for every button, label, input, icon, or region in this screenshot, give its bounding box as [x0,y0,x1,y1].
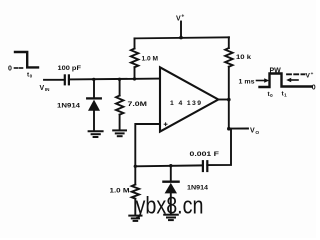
node 0 level label [312,84,316,91]
diode D2 1N914 [170,166,172,181]
svg-text:0.001 F: 0.001 F [190,151,220,158]
wire top rail [135,37,230,38]
svg-text:1 ms: 1 ms [239,78,255,85]
wire dashed zero level [15,67,18,69]
svg-text:IN: IN [45,87,50,92]
svg-text:1.0 M: 1.0 M [110,187,131,194]
node V+ level label [306,71,314,80]
node t0 label [27,72,33,79]
svg-text:O: O [255,130,259,136]
node output junction [227,98,231,102]
wire capacitor C2 to output leg [207,129,231,165]
svg-text:100 pF: 100 pF [58,65,82,72]
dashed level line to V+ [287,73,305,75]
svg-text:10 k: 10 k [236,54,251,61]
svg-text:1N914: 1N914 [57,103,80,110]
node Vo junction [227,127,231,131]
wire to Vo terminal [229,128,248,130]
svg-text:V: V [176,16,181,23]
resistor R2 7.0M [119,79,121,95]
output pulse waveform [260,74,312,88]
wire output down [228,100,230,129]
node junction bottom-left [134,165,137,168]
ground under R2 [113,129,126,131]
node Vin label [40,85,51,92]
svg-text:7.0M: 7.0M [128,101,148,108]
node t0 t1 labels [268,91,274,98]
resistor R3 10k [228,37,230,48]
resistor R4 1.0M [134,166,136,184]
capacitor C1 100 pF [64,75,66,84]
svg-text:ybx8.cn: ybx8.cn [136,193,204,220]
svg-text:+: + [181,14,184,20]
capacitor C2 0.001 F [202,161,204,171]
node PW label [270,67,282,74]
ground under D1 [89,130,103,132]
wire input to capacitor [44,79,64,81]
svg-text:0: 0 [30,74,33,79]
svg-text:PW: PW [270,67,282,74]
node junction at R1 bottom [133,77,136,80]
op-amp U1 1/4 LM139 [160,67,218,131]
wire bottom horizontal [135,164,203,167]
V+ supply [180,22,182,38]
svg-text:1: 1 [284,93,287,98]
input step waveform [15,52,38,67]
wire capacitor to op-amp top input [69,78,160,81]
svg-text:0: 0 [8,65,12,72]
node junction at D2 [169,164,172,167]
svg-text:V: V [250,128,255,135]
node junction after cap [92,78,95,81]
resistor R1 1.0M [134,38,136,48]
svg-text:1.0 M: 1.0 M [142,56,159,63]
svg-text:1N914: 1N914 [187,184,208,191]
diode D1 1N914 [93,79,95,97]
svg-text:+: + [311,71,314,76]
arrow left at falling edge [289,79,298,81]
wire op-amp bottom input [135,124,160,166]
ground under D2 [164,214,178,216]
node junction at R2 [118,78,121,81]
node 1 ms label and arrow [239,78,255,85]
svg-text:0: 0 [270,93,273,98]
wire op-amp output [218,99,229,101]
op-amp plus mark [164,123,167,125]
ground under R4 [129,215,141,217]
svg-text:V: V [40,85,45,92]
svg-text:0: 0 [312,84,316,91]
node 0 level label [8,65,12,72]
node Vo label [250,128,259,136]
